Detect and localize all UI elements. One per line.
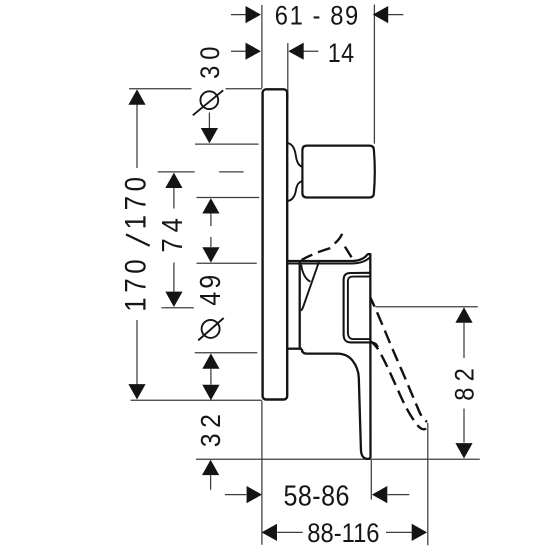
svg-text:170: 170 bbox=[119, 172, 152, 229]
arrow 61-89 left bbox=[246, 6, 261, 23]
centerline spindle L3 bbox=[158, 171, 244, 173]
lever up dash 1 bbox=[302, 255, 313, 260]
arrow 74 top bbox=[165, 173, 182, 188]
grip loop outer bbox=[344, 273, 378, 347]
svg-text:49: 49 bbox=[195, 272, 227, 306]
extension line hub-top L5 bbox=[197, 262, 257, 264]
svg-text:170: 170 bbox=[119, 255, 152, 312]
handle hub bottom bbox=[287, 348, 302, 350]
spindle flare top bbox=[288, 143, 303, 167]
lever up dash 2 bbox=[318, 248, 330, 252]
dimension line 58-86 bbox=[225, 494, 409, 496]
dimension line O30 leader bbox=[208, 113, 210, 129]
wall plate escutcheon bbox=[263, 89, 288, 399]
extension line spindle-top L2 bbox=[195, 143, 259, 145]
extension line handle-bottom L9 bbox=[196, 458, 480, 460]
lever down back edge dashed bbox=[371, 342, 426, 430]
extension line 82-top bbox=[375, 306, 478, 308]
arrow O30 bottom bbox=[202, 198, 219, 213]
handle neck fillet bbox=[301, 265, 310, 282]
arrow 74 bottom bbox=[165, 292, 182, 307]
svg-text:32: 32 bbox=[195, 409, 227, 447]
extension line cartridge-right V3 bbox=[373, 5, 375, 144]
lever down front edge dashed bbox=[370, 298, 427, 422]
lever up dash 3 apex bbox=[335, 234, 342, 244]
arrow 82 top bbox=[455, 307, 472, 322]
dimension line 61-89 bbox=[231, 14, 403, 16]
extension line plate-right V2 bbox=[287, 43, 289, 100]
arrow 170/170 top bbox=[128, 89, 145, 104]
extension line blade-tip V58 bbox=[370, 460, 372, 500]
dimension line 14 bbox=[231, 50, 318, 52]
extension line hub-bottom L7 bbox=[195, 352, 258, 354]
svg-text:30: 30 bbox=[196, 41, 226, 79]
extension line lever-tip V88 bbox=[427, 423, 429, 545]
arrow 58-86 left bbox=[247, 486, 262, 503]
diameter symbol O30 bbox=[200, 91, 218, 109]
dimension line 170/170 bbox=[136, 105, 138, 385]
arrow 32 bottom bbox=[202, 460, 219, 475]
dimension line 74 bbox=[173, 188, 175, 292]
arrow 88-116 right bbox=[412, 524, 427, 541]
extension line wall/plate-left V1 lower bbox=[261, 401, 263, 545]
arrow O30 top bbox=[201, 128, 218, 143]
extension line plate-top L1 bbox=[129, 88, 262, 90]
grip loop inner bbox=[348, 277, 370, 340]
handle hub inner top line bbox=[287, 257, 369, 263]
dimension tail 32 bbox=[210, 475, 212, 490]
dimension line 88-116 bbox=[277, 531, 412, 533]
arrow 61-89 right bbox=[373, 6, 388, 23]
lever up dash 4 landing bbox=[345, 247, 352, 258]
arrow 88-116 left bbox=[262, 524, 277, 541]
arrow O49 bottom bbox=[202, 353, 219, 368]
handle hub front edge bbox=[299, 262, 301, 349]
extension line spindle-bottom L4 bbox=[197, 197, 260, 199]
extension line wall/plate-left V1 upper bbox=[261, 5, 263, 88]
extension line plate-bottom L8 bbox=[131, 399, 262, 401]
svg-text:74: 74 bbox=[156, 212, 189, 252]
arrow 58-86 right bbox=[372, 486, 387, 503]
extension line pivot L6 bbox=[162, 307, 194, 309]
diameter symbol O49 bbox=[202, 320, 220, 338]
handle outer outline bbox=[287, 254, 370, 459]
connector O49-32 arrows bbox=[210, 369, 212, 385]
svg-text:61 - 89: 61 - 89 bbox=[275, 1, 360, 31]
handle neck diagonal bbox=[301, 262, 319, 311]
arrow 82 bottom bbox=[455, 443, 472, 458]
svg-text:14: 14 bbox=[328, 39, 355, 69]
arrow 32 top bbox=[202, 385, 219, 400]
arrow 14 right bbox=[288, 43, 303, 60]
svg-text:58-86: 58-86 bbox=[284, 480, 350, 512]
svg-text:82: 82 bbox=[450, 362, 480, 401]
arrow 14 left bbox=[246, 43, 261, 60]
dimension line 82 bbox=[463, 323, 465, 443]
connector O30-O49 arrows bbox=[210, 213, 212, 247]
svg-text:88-116: 88-116 bbox=[307, 519, 379, 548]
spindle flare bottom bbox=[288, 181, 303, 201]
spindle cartridge body bbox=[302, 146, 374, 198]
arrow 170/170 bottom bbox=[128, 384, 145, 399]
arrow O49 top bbox=[202, 247, 219, 262]
